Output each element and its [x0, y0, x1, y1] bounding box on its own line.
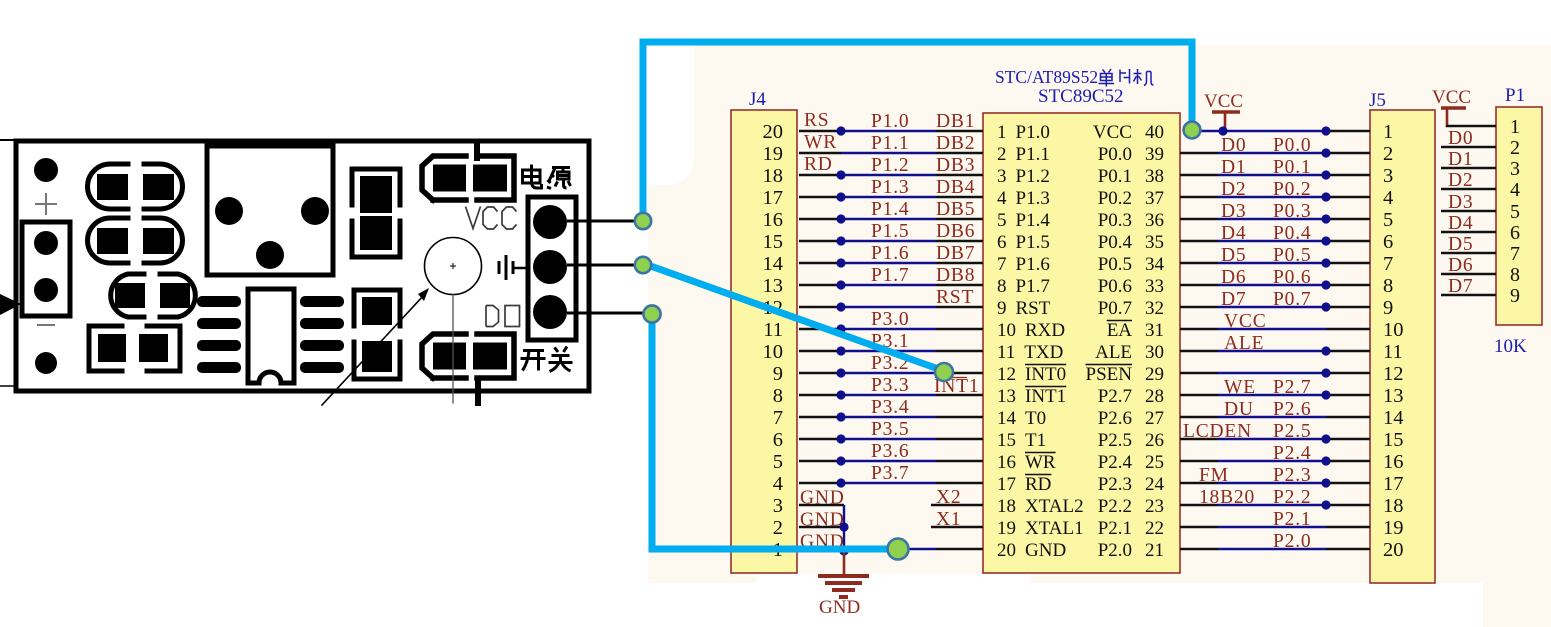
- svg-text:XTAL1: XTAL1: [1025, 518, 1084, 539]
- power pads footprint (dian-yuan): [422, 156, 514, 200]
- svg-text:VCC: VCC: [1093, 122, 1132, 143]
- svg-text:D5: D5: [1448, 234, 1473, 255]
- svg-text:18: 18: [997, 496, 1016, 517]
- junction on J5-15 wire: [1321, 434, 1330, 443]
- svg-text:VCC: VCC: [1204, 91, 1243, 112]
- svg-text:P0.7: P0.7: [1273, 289, 1311, 310]
- svg-text:13: 13: [763, 275, 784, 297]
- svg-text:13: 13: [997, 386, 1016, 407]
- svg-text:39: 39: [1145, 144, 1164, 165]
- svg-text:TXD: TXD: [1024, 342, 1063, 363]
- junction on J4-7 wire: [836, 412, 845, 421]
- chip component footprint lower-mid: [354, 290, 400, 379]
- wire D1 to P1-3: [1441, 167, 1496, 170]
- svg-text:WR: WR: [804, 132, 837, 153]
- svg-text:RD: RD: [1025, 474, 1051, 495]
- node VCC at PCB: [635, 213, 651, 229]
- svg-text:WE: WE: [1224, 377, 1256, 398]
- svg-text:P1.3: P1.3: [871, 177, 909, 198]
- wire J4-15 to U1 pin 6: [799, 236, 983, 245]
- svg-text:6: 6: [1510, 222, 1520, 244]
- trimmer circle: [425, 238, 482, 295]
- svg-text:P3.7: P3.7: [871, 463, 909, 484]
- svg-text:P1.1: P1.1: [871, 133, 909, 154]
- svg-text:10: 10: [763, 341, 784, 363]
- svg-text:P1.7: P1.7: [871, 265, 909, 286]
- svg-text:J5: J5: [1369, 90, 1386, 111]
- svg-text:RST: RST: [936, 287, 974, 308]
- svg-text:D3: D3: [1448, 192, 1473, 213]
- svg-text:P3.5: P3.5: [871, 419, 909, 440]
- svg-text:11: 11: [997, 342, 1015, 363]
- svg-text:5: 5: [997, 210, 1007, 231]
- chip component footprint upper-mid: [352, 169, 400, 257]
- wire J4-16 to U1 pin 5: [799, 214, 983, 223]
- junction on J5-13 wire: [1321, 390, 1330, 399]
- junction on J5-18 wire: [1321, 500, 1330, 509]
- svg-text:P0.1: P0.1: [1098, 166, 1132, 187]
- svg-text:DB8: DB8: [936, 265, 975, 286]
- svg-text:12: 12: [997, 364, 1016, 385]
- input arrow: [0, 294, 21, 315]
- svg-text:8: 8: [1383, 275, 1393, 297]
- junction on J4-18 wire: [836, 170, 845, 179]
- svg-text:D1: D1: [1221, 157, 1246, 178]
- svg-text:P2.5: P2.5: [1098, 430, 1132, 451]
- svg-text:LCDEN: LCDEN: [1183, 421, 1252, 442]
- svg-text:D7: D7: [1448, 276, 1473, 297]
- wire J4-3 GND stub: [799, 504, 844, 507]
- svg-text:DB7: DB7: [936, 243, 975, 264]
- junction on J4-10 wire: [836, 346, 845, 355]
- svg-text:22: 22: [1145, 518, 1164, 539]
- svg-text:D4: D4: [1448, 213, 1473, 234]
- board edge leader tick bottom-left: [0, 385, 16, 387]
- svg-text:P1.0: P1.0: [871, 111, 909, 132]
- schematic sheet background: [648, 45, 1551, 627]
- svg-text:7: 7: [1383, 253, 1393, 275]
- svg-text:P0.0: P0.0: [1098, 144, 1132, 165]
- wire J4-17 to U1 pin 4: [799, 192, 983, 201]
- junction on J4-15 wire: [836, 236, 845, 245]
- wire DQ (cyan) PCB to INT1: [645, 264, 944, 371]
- J5 pin numbers: [1383, 121, 1404, 561]
- resistor network P1 body: [1496, 107, 1542, 325]
- wire U1 pin 25 to J5-16: [1180, 456, 1370, 465]
- svg-text:16: 16: [997, 452, 1016, 473]
- wire VCC to P1 pin1: [1447, 125, 1496, 126]
- svg-text:INT1: INT1: [1025, 386, 1066, 407]
- svg-text:9: 9: [1383, 297, 1393, 319]
- junction on J5-1 wire: [1321, 126, 1330, 135]
- svg-text:DB1: DB1: [936, 111, 975, 132]
- svg-text:30: 30: [1145, 342, 1164, 363]
- power symbol VCC at P1 pin1: [1441, 108, 1466, 125]
- junction on J5-3 wire: [1321, 170, 1330, 179]
- svg-text:6: 6: [773, 429, 783, 451]
- board edge leader tick top-left: [0, 139, 16, 141]
- wire J4-2 GND stub: [799, 526, 844, 529]
- svg-text:GND: GND: [800, 488, 845, 509]
- junction on J5-17 wire: [1321, 478, 1330, 487]
- svg-text:19: 19: [763, 143, 784, 165]
- svg-text:6: 6: [997, 232, 1007, 253]
- svg-text:1: 1: [997, 122, 1007, 143]
- wire D4 to P1-6: [1441, 231, 1496, 234]
- wire J4-7 to U1 pin 14: [799, 412, 983, 421]
- svg-text:7: 7: [1510, 243, 1520, 265]
- svg-text:P2.1: P2.1: [1098, 518, 1132, 539]
- svg-text:8: 8: [1510, 264, 1520, 286]
- mounting pad top-left: [34, 158, 58, 182]
- wire J4-10 to U1 pin 11: [799, 346, 983, 355]
- svg-text:5: 5: [1510, 201, 1520, 223]
- svg-text:12: 12: [1383, 363, 1404, 385]
- svg-text:5: 5: [1383, 209, 1393, 231]
- svg-text:ALE: ALE: [1095, 342, 1132, 363]
- connector J5: [1370, 110, 1435, 583]
- label DQ silkscreen: [486, 306, 520, 327]
- svg-text:20: 20: [997, 540, 1016, 561]
- svg-text:38: 38: [1145, 166, 1164, 187]
- capacitor silkscreen symbol: [499, 255, 529, 280]
- svg-text:PSEN: PSEN: [1086, 364, 1133, 385]
- junction on J5-16 wire: [1321, 456, 1330, 465]
- svg-text:19: 19: [997, 518, 1016, 539]
- wire U1 pin 31 to J5-10: [1180, 328, 1370, 331]
- label VCC silkscreen: [466, 207, 517, 230]
- junction on J4-13 wire: [836, 280, 845, 289]
- svg-text:WR: WR: [1025, 452, 1056, 473]
- junction on J4-4 wire: [836, 478, 845, 487]
- svg-text:P2.6: P2.6: [1098, 408, 1132, 429]
- svg-text:P2.1: P2.1: [1273, 509, 1311, 530]
- svg-text:36: 36: [1145, 210, 1164, 231]
- svg-text:34: 34: [1145, 254, 1165, 275]
- svg-text:31: 31: [1145, 320, 1164, 341]
- svg-text:4: 4: [1510, 179, 1520, 201]
- svg-text:P0.1: P0.1: [1273, 157, 1311, 178]
- svg-text:40: 40: [1145, 122, 1164, 143]
- svg-text:RS: RS: [804, 110, 829, 131]
- svg-text:RXD: RXD: [1025, 320, 1065, 341]
- MCU title STC/AT89S52 MCU: [995, 67, 1154, 87]
- svg-text:P1.3: P1.3: [1016, 188, 1050, 209]
- svg-text:4: 4: [1383, 187, 1393, 209]
- svg-text:17: 17: [997, 474, 1016, 495]
- MCU U1 STC89C52 body: [983, 113, 1180, 573]
- svg-text:P1.2: P1.2: [1016, 166, 1050, 187]
- wire D5 to P1-7: [1441, 252, 1496, 255]
- wire U1 pin 35 to J5-6: [1180, 236, 1370, 245]
- svg-text:DB4: DB4: [936, 177, 975, 198]
- plus polarity mark: [36, 194, 56, 214]
- svg-text:P0.3: P0.3: [1098, 210, 1132, 231]
- trimmer centre line: [452, 295, 454, 403]
- svg-text:D7: D7: [1221, 289, 1246, 310]
- wire D2 to P1-4: [1441, 188, 1496, 191]
- svg-text:P2.5: P2.5: [1273, 421, 1311, 442]
- svg-text:DB5: DB5: [936, 199, 975, 220]
- wire U1 pin 36 to J5-5: [1180, 214, 1370, 223]
- svg-text:D2: D2: [1221, 179, 1246, 200]
- svg-text:28: 28: [1145, 386, 1164, 407]
- svg-text:17: 17: [1383, 473, 1404, 495]
- svg-text:P2.7: P2.7: [1098, 386, 1132, 407]
- svg-text:RST: RST: [1016, 298, 1051, 319]
- wire VCC pad to junction: [567, 220, 636, 223]
- svg-text:D4: D4: [1221, 223, 1246, 244]
- node DQ at PCB: [643, 305, 660, 322]
- junction on J5-8 wire: [1321, 280, 1330, 289]
- wire GND (cyan) PCB to U1 pin20: [652, 316, 897, 549]
- svg-text:P1.2: P1.2: [871, 155, 909, 176]
- wire J4-9 to U1 pin 12: [799, 368, 983, 377]
- svg-text:STC89C52: STC89C52: [1038, 86, 1124, 107]
- svg-text:P2.6: P2.6: [1273, 399, 1311, 420]
- wire D0 to P1-2: [1441, 146, 1496, 149]
- power input header J? (2-pin): [22, 222, 70, 316]
- svg-text:P0.4: P0.4: [1273, 223, 1311, 244]
- node INT1: [935, 363, 953, 381]
- svg-text:P2.4: P2.4: [1273, 443, 1311, 464]
- svg-text:27: 27: [1145, 408, 1164, 429]
- svg-text:P3.6: P3.6: [871, 441, 909, 462]
- svg-text:23: 23: [1145, 496, 1164, 517]
- svg-text:D0: D0: [1221, 135, 1246, 156]
- junction on J5-6 wire: [1321, 236, 1330, 245]
- node VCC at U1 pin40: [1184, 122, 1201, 139]
- svg-text:P2.4: P2.4: [1098, 452, 1133, 473]
- junction on J4-5 wire: [836, 456, 845, 465]
- wire J4-19 to U1 pin 2: [799, 152, 983, 155]
- svg-text:T0: T0: [1025, 408, 1046, 429]
- svg-text:2: 2: [773, 517, 783, 539]
- svg-text:1: 1: [1510, 116, 1520, 138]
- svg-text:8: 8: [773, 385, 783, 407]
- svg-text:19: 19: [1383, 517, 1404, 539]
- wire U1 pin 37 to J5-4: [1180, 192, 1370, 201]
- svg-text:P1.6: P1.6: [871, 243, 909, 264]
- svg-text:D1: D1: [1448, 149, 1473, 170]
- svg-text:16: 16: [1383, 451, 1404, 473]
- wire U1 pin 39 to J5-2: [1180, 148, 1370, 157]
- svg-text:P1.1: P1.1: [1016, 144, 1050, 165]
- svg-text:FM: FM: [1199, 465, 1229, 486]
- svg-text:VCC: VCC: [1224, 311, 1267, 332]
- svg-text:GND: GND: [1025, 540, 1066, 561]
- svg-text:11: 11: [763, 319, 783, 341]
- svg-text:GND: GND: [819, 597, 860, 618]
- svg-text:P2.0: P2.0: [1273, 531, 1311, 552]
- svg-text:P0.7: P0.7: [1098, 298, 1132, 319]
- wire U1 pin 21 to J5-20: [1180, 548, 1370, 551]
- svg-text:DB6: DB6: [936, 221, 975, 242]
- svg-text:15: 15: [997, 430, 1016, 451]
- svg-text:P1.4: P1.4: [871, 199, 909, 220]
- wire J4-6 to U1 pin 15: [799, 434, 983, 443]
- chip component footprint (two pads, open frame) lower-left: [89, 326, 180, 371]
- svg-text:11: 11: [1383, 341, 1403, 363]
- junction on J4-11 wire: [836, 324, 845, 333]
- junction on J4-20 wire: [836, 126, 845, 135]
- junction on J4-14 wire: [836, 258, 845, 267]
- wire U1 pin 27 to J5-14: [1180, 416, 1370, 419]
- svg-text:VCC: VCC: [1432, 87, 1471, 108]
- wire D7 to P1-9: [1441, 294, 1496, 297]
- junction at VCC stem: [1218, 126, 1227, 135]
- svg-text:P1.5: P1.5: [1016, 232, 1050, 253]
- svg-text:P1.5: P1.5: [871, 221, 909, 242]
- svg-text:25: 25: [1145, 452, 1164, 473]
- wire U1 pin 28 to J5-13: [1180, 390, 1370, 399]
- capacitor footprint C? mid: [111, 274, 196, 317]
- switch pads footprint (kai-guan): [422, 334, 514, 378]
- wire J4-1 GND stub: [799, 548, 844, 551]
- label dian-yuan (power): [523, 165, 571, 189]
- J4 pin numbers: [763, 121, 784, 561]
- svg-text:INT0: INT0: [1025, 364, 1066, 385]
- wire U1 pin 33 to J5-8: [1180, 280, 1370, 289]
- wire U1 pin 29 to J5-12: [1180, 368, 1370, 377]
- svg-text:D6: D6: [1221, 267, 1246, 288]
- wire D3 to P1-5: [1441, 210, 1496, 213]
- svg-text:P0.4: P0.4: [1098, 232, 1133, 253]
- capacitor footprint C? top-1: [88, 164, 183, 209]
- PCB board outline: [16, 141, 589, 391]
- pointer arrow to trimmer: [322, 288, 429, 405]
- svg-text:P2.3: P2.3: [1273, 465, 1311, 486]
- stub X2 to U1 pin18: [931, 504, 983, 507]
- svg-text:13: 13: [1383, 385, 1404, 407]
- connector J4: [731, 110, 797, 573]
- svg-text:2: 2: [997, 144, 1007, 165]
- svg-text:32: 32: [1145, 298, 1164, 319]
- svg-text:8: 8: [997, 276, 1007, 297]
- svg-text:EA: EA: [1107, 320, 1133, 341]
- svg-text:P1.7: P1.7: [1016, 276, 1050, 297]
- svg-text:4: 4: [997, 188, 1007, 209]
- svg-text:P1.0: P1.0: [1016, 122, 1050, 143]
- wire J4-4 to U1 pin 17: [799, 478, 983, 487]
- wire J4-18 to U1 pin 3: [799, 170, 983, 179]
- IC U? SOIC-8 footprint: [197, 289, 344, 383]
- svg-text:P0.6: P0.6: [1273, 267, 1311, 288]
- svg-text:21: 21: [1145, 540, 1164, 561]
- wire U1 pin 26 to J5-15: [1180, 434, 1370, 443]
- svg-text:29: 29: [1145, 364, 1164, 385]
- svg-text:GND: GND: [800, 510, 845, 531]
- svg-text:18: 18: [1383, 495, 1404, 517]
- junction on J5-9 wire: [1321, 302, 1330, 311]
- wire J4-13 to U1 pin 8: [799, 280, 983, 289]
- svg-text:2: 2: [1383, 143, 1393, 165]
- svg-text:4: 4: [773, 473, 783, 495]
- wire J4-11 to U1 pin 10: [799, 324, 983, 333]
- svg-text:9: 9: [773, 363, 783, 385]
- GND bus wire: [839, 505, 848, 556]
- svg-text:P0.5: P0.5: [1273, 245, 1311, 266]
- svg-text:14: 14: [1383, 407, 1404, 429]
- svg-text:37: 37: [1145, 188, 1164, 209]
- wire U1 pin 38 to J5-3: [1180, 170, 1370, 179]
- svg-text:P1: P1: [1505, 85, 1525, 106]
- svg-text:P0.3: P0.3: [1273, 201, 1311, 222]
- junction on J4-9 wire: [836, 368, 845, 377]
- svg-text:3: 3: [773, 495, 783, 517]
- node GND: [888, 539, 909, 560]
- svg-text:10: 10: [1383, 319, 1404, 341]
- capacitor footprint C? top-2: [88, 218, 183, 263]
- svg-text:P0.5: P0.5: [1098, 254, 1132, 275]
- svg-text:STC/AT89S52: STC/AT89S52: [995, 67, 1098, 87]
- svg-text:9: 9: [1510, 285, 1520, 307]
- wire J4-12 to U1 pin 9: [799, 302, 983, 311]
- svg-text:18B20: 18B20: [1199, 487, 1255, 508]
- svg-text:3: 3: [997, 166, 1007, 187]
- svg-text:9: 9: [997, 298, 1007, 319]
- svg-text:6: 6: [1383, 231, 1393, 253]
- power symbol VCC at U1 pin40: [1212, 112, 1240, 131]
- junction on J4-6 wire: [836, 434, 845, 443]
- wire J4-8 to U1 pin 13: [799, 390, 983, 399]
- svg-text:DB2: DB2: [936, 133, 975, 154]
- svg-text:P0.2: P0.2: [1273, 179, 1311, 200]
- stub X1 to U1 pin19: [931, 526, 983, 529]
- wire U1 pin 32 to J5-9: [1180, 302, 1370, 311]
- mounting pad bottom-left: [35, 352, 57, 374]
- svg-text:7: 7: [997, 254, 1007, 275]
- svg-text:P2.3: P2.3: [1098, 474, 1132, 495]
- svg-text:3: 3: [1383, 165, 1393, 187]
- svg-text:D6: D6: [1448, 255, 1473, 276]
- junction on J5-12 wire: [1321, 368, 1330, 377]
- svg-text:P1.6: P1.6: [1016, 254, 1050, 275]
- svg-text:P3.0: P3.0: [871, 309, 909, 330]
- junction on J5-4 wire: [1321, 192, 1330, 201]
- wire U1 pin 30 to J5-11: [1180, 346, 1370, 355]
- svg-text:P1.4: P1.4: [1016, 210, 1051, 231]
- svg-text:14: 14: [763, 253, 784, 275]
- wire VCC (cyan) PCB to U1 pin40: [643, 42, 1192, 219]
- svg-text:P2.7: P2.7: [1273, 377, 1311, 398]
- svg-text:P3.3: P3.3: [871, 375, 909, 396]
- white patch over sheet corner: [648, 45, 694, 185]
- svg-text:P0.6: P0.6: [1098, 276, 1132, 297]
- svg-text:D3: D3: [1221, 201, 1246, 222]
- junction on J5-7 wire: [1321, 258, 1330, 267]
- svg-text:2: 2: [1510, 137, 1520, 159]
- junction on J5-11 wire: [1321, 346, 1330, 355]
- wire U1 pin 34 to J5-7: [1180, 258, 1370, 267]
- svg-text:DB3: DB3: [936, 155, 975, 176]
- wire DQ pad to junction: [567, 312, 645, 315]
- svg-text:P3.4: P3.4: [871, 397, 909, 418]
- svg-text:7: 7: [773, 407, 783, 429]
- minus polarity mark: [38, 324, 54, 326]
- svg-text:20: 20: [1383, 539, 1404, 561]
- wire U1 pin 40 to J5-1: [1200, 126, 1370, 135]
- wire D6 to P1-8: [1441, 273, 1496, 276]
- svg-text:P0.2: P0.2: [1098, 188, 1132, 209]
- junction on J4-17 wire: [836, 192, 845, 201]
- P1 pin numbers: [1510, 116, 1520, 307]
- svg-text:J4: J4: [749, 89, 766, 110]
- svg-text:P2.2: P2.2: [1273, 487, 1311, 508]
- svg-text:DU: DU: [1224, 399, 1254, 420]
- svg-text:15: 15: [763, 231, 784, 253]
- svg-text:P2.0: P2.0: [1098, 540, 1132, 561]
